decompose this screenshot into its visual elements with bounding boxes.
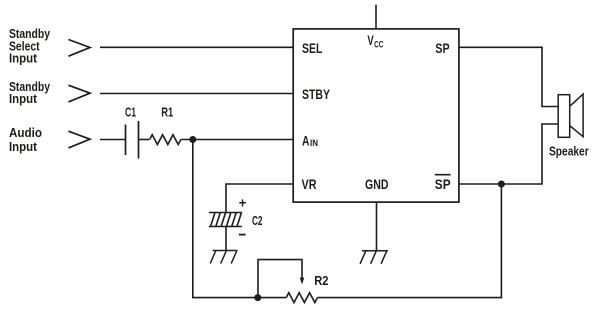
svg-text:VR: VR — [302, 177, 317, 192]
svg-text:SP: SP — [435, 177, 451, 192]
input chevron: Standby Select — [68, 40, 90, 57]
node A (junction R1 / feedback) — [189, 136, 196, 143]
wire: C1 to R1 — [139, 139, 150, 141]
op-amp U1 (audio amplifier IC block) — [293, 29, 459, 202]
potentiometer R2 wiper arrow — [300, 278, 305, 285]
capacitor C2 (polarized, hatched plate) — [209, 213, 242, 227]
svg-text:Input: Input — [9, 91, 38, 106]
svg-text:CC: CC — [374, 40, 383, 50]
svg-text:Input: Input — [9, 51, 38, 66]
svg-text:R1: R1 — [161, 105, 173, 119]
svg-text:STBY: STBY — [302, 87, 330, 102]
wire: VR pin to C2 branch — [226, 184, 293, 213]
wire: node A down to bottom rail — [192, 140, 195, 298]
ground (below GND pin) — [360, 251, 388, 264]
wire: node C down to bottom rail — [500, 184, 503, 298]
svg-text:C1: C1 — [125, 105, 136, 119]
resistor R2 (potentiometer element) — [286, 293, 317, 303]
wire: VCC stub — [375, 5, 377, 29]
svg-text:A: A — [302, 133, 310, 148]
wire: C2 to ground — [225, 227, 227, 251]
wire: SP pin to speaker top terminal — [459, 47, 558, 106]
svg-text:Speaker: Speaker — [549, 144, 589, 158]
node C (junction on SPbar wire) — [498, 181, 505, 188]
svg-text:SEL: SEL — [302, 41, 322, 56]
svg-text:R2: R2 — [314, 274, 328, 288]
capacitor C1 — [126, 121, 139, 159]
wire: bottom rail right segment — [317, 297, 502, 299]
wire: Standby Input to STBY pin — [100, 93, 293, 95]
wire: speaker bottom terminal to SPbar pin — [459, 124, 558, 184]
label: Audio Input — [9, 125, 42, 154]
svg-text:+: + — [239, 195, 247, 211]
ground (below C2) — [210, 251, 237, 264]
pin label: VCC — [367, 33, 383, 49]
svg-text:GND: GND — [365, 177, 389, 192]
wire: GND pin to ground — [376, 202, 378, 251]
resistor R1 — [150, 135, 181, 145]
wire: Standby Select Input to SEL pin — [100, 46, 293, 48]
input chevron: Audio — [68, 131, 90, 148]
label: Standby Input — [9, 79, 51, 106]
svg-text:Audio: Audio — [9, 125, 42, 140]
wire: R1 to AIN pin — [181, 139, 293, 141]
svg-text:Input: Input — [9, 139, 38, 154]
pin label: AIN — [302, 133, 318, 148]
wire: Audio Input to C1 — [100, 139, 126, 141]
input chevron: Standby — [68, 85, 90, 102]
wire: R2 wiper loop — [258, 260, 302, 298]
svg-text:SP: SP — [435, 41, 449, 56]
label: Standby Select Input — [9, 26, 51, 66]
wire: bottom rail left segment — [192, 297, 286, 299]
SPbar overline — [435, 174, 451, 176]
label: C2 minus sign — [239, 234, 246, 236]
speaker LS1 — [558, 94, 583, 137]
svg-text:IN: IN — [310, 138, 318, 148]
node B (wiper junction on bottom rail) — [254, 294, 261, 301]
svg-text:C2: C2 — [252, 214, 263, 228]
